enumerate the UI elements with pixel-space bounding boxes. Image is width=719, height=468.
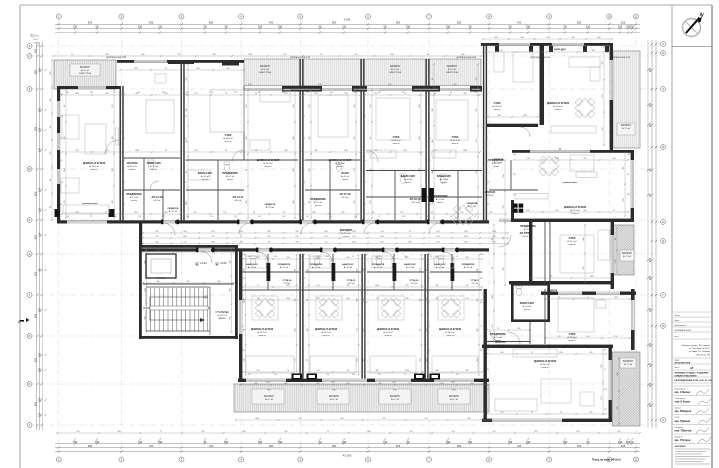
svg-text:515: 515 [492, 431, 495, 433]
svg-text:205: 205 [648, 382, 652, 387]
svg-text:БАЛКОН: БАЛКОН [447, 65, 457, 68]
svg-text:A: 3.9 м²: A: 3.9 м² [406, 266, 414, 269]
title block rows top [673, 312, 711, 339]
grid axis 7 [428, 20, 430, 452]
svg-text:+5.60: +5.60 [220, 261, 227, 265]
wall: party wall x119 (double) [120, 86, 124, 224]
svg-text:450: 450 [402, 216, 405, 218]
svg-text:120: 120 [604, 409, 607, 411]
svg-text:325: 325 [295, 242, 298, 244]
svg-text:250: 250 [406, 25, 411, 29]
window corridor south gap1 [258, 248, 269, 251]
partition: apt45 bath v x458 [457, 171, 459, 221]
room label: apt3 bedroom [391, 136, 401, 145]
svg-text:385: 385 [590, 276, 593, 278]
svg-text:15: 15 [122, 116, 124, 118]
svg-text:250: 250 [526, 25, 531, 29]
svg-text:120: 120 [223, 212, 226, 214]
svg-text:Жилищна сграда с ПГ и гаражи,: Жилищна сграда с ПГ и гаражи, [682, 345, 711, 347]
furniture: bed apt5 [436, 100, 468, 140]
svg-text:450: 450 [517, 328, 520, 330]
dim chain: apt row y150 [61, 151, 481, 153]
frame top line [20, 4, 712, 6]
wall: right wing bottom wall [510, 219, 634, 222]
svg-text:515: 515 [324, 242, 327, 244]
svg-text:325: 325 [604, 389, 607, 391]
svg-text:120: 120 [427, 326, 430, 328]
svg-text:450: 450 [284, 150, 287, 152]
svg-text:205: 205 [256, 257, 259, 259]
svg-text:120: 120 [183, 242, 186, 244]
svg-text:205: 205 [66, 216, 69, 218]
stair mid landing rail [150, 306, 208, 310]
svg-text:A: 16.1 м²: A: 16.1 м² [391, 139, 401, 142]
svg-text:325: 325 [508, 440, 513, 444]
north arrow box [672, 46, 712, 48]
furniture: dresser apt2 [250, 140, 270, 150]
window corridor north gap5 [429, 220, 440, 223]
furniture: low sofa1 [246, 356, 294, 373]
dim chain: x585 bb [584, 224, 586, 283]
svg-text:90: 90 [450, 216, 452, 218]
svg-text:ПРЕДВЕРИЕ: ПРЕДВЕРИЕ [490, 333, 506, 336]
svg-text:120: 120 [526, 158, 529, 160]
window balc row w3 [367, 88, 412, 91]
svg-text:325: 325 [426, 328, 428, 331]
svg-text:БАЛКОН: БАЛКОН [449, 395, 459, 398]
svg-text:265: 265 [457, 21, 462, 25]
svg-text:75: 75 [497, 328, 499, 330]
svg-text:БАНЯ И WC: БАНЯ И WC [437, 175, 452, 178]
svg-text:325: 325 [400, 212, 403, 214]
svg-text:450: 450 [346, 298, 349, 300]
room label: low4 bath [434, 263, 446, 269]
svg-text:385: 385 [426, 216, 429, 218]
dim chain: stair x231 [231, 247, 233, 333]
svg-text:ламинат: ламинат [568, 244, 576, 246]
svg-text:385: 385 [312, 212, 315, 214]
window corridor south gap1 [258, 248, 269, 251]
svg-text:260: 260 [405, 298, 408, 300]
svg-text:1250: 1250 [248, 54, 252, 56]
furniture: rw kitchen [515, 194, 548, 200]
room label: apt3 number [340, 192, 351, 199]
svg-text:205: 205 [293, 168, 295, 171]
svg-text:СТУД.17: СТУД.17 [471, 280, 480, 282]
room label: apt1 living [83, 162, 105, 171]
svg-text:СТАЯ: СТАЯ [569, 333, 576, 336]
room label: apt2 closet [265, 203, 276, 209]
svg-text:1250: 1250 [463, 150, 467, 152]
svg-text:A: 6.7 м²: A: 6.7 м² [391, 398, 399, 401]
top dimension numbers [73, 18, 635, 29]
svg-text:A: 5.5 м²: A: 5.5 м² [314, 201, 322, 204]
svg-text:205: 205 [346, 285, 349, 287]
svg-text:385: 385 [326, 256, 329, 258]
wall: stair bottom wall [139, 336, 238, 339]
room label: apt4 bedroom [450, 136, 460, 145]
svg-text:625: 625 [88, 21, 93, 25]
wall: tr pier c [549, 46, 553, 52]
furniture: low tbl2 [316, 296, 342, 320]
svg-text:260: 260 [211, 242, 214, 244]
svg-text:A: 27.4 м²: A: 27.4 м² [341, 232, 351, 235]
dim chain: x356 inner [355, 89, 357, 219]
svg-text:РАЗПРЕДЕЛЕНИЕ КОТА +5.40: РАЗПРЕДЕЛЕНИЕ КОТА +5.40 [675, 379, 705, 382]
svg-text:СТУД.15: СТУД.15 [347, 280, 356, 282]
corridor door jambs [161, 220, 458, 253]
svg-text:75: 75 [409, 236, 411, 238]
svg-text:205: 205 [60, 94, 63, 96]
svg-text:БАЛКОН: БАЛКОН [329, 395, 339, 398]
svg-text:ПРЕДВЕРИЕ: ПРЕДВЕРИЕ [126, 193, 142, 196]
svg-text:Б: Б [29, 382, 31, 386]
elevator cab [146, 254, 176, 278]
grid axis 6 [367, 20, 369, 452]
wall: balcony divider x360 (double) [360, 59, 364, 86]
svg-text:120: 120 [354, 168, 356, 171]
svg-text:АП.13.16: АП.13.16 [152, 195, 163, 199]
wall: top-right block right wall [610, 43, 613, 152]
svg-text:325: 325 [316, 298, 319, 300]
room label: apt3 bath [341, 172, 349, 181]
svg-text:325: 325 [378, 92, 381, 94]
room label: brw entry [490, 333, 506, 342]
svg-text:1250: 1250 [497, 115, 501, 117]
room label: apt1 bath [147, 162, 162, 171]
svg-text:75: 75 [531, 352, 533, 354]
door apt1 living [105, 140, 119, 154]
furniture: bed apt2 [210, 90, 244, 132]
balcony labels text [79, 65, 633, 401]
svg-text:120: 120 [383, 440, 388, 444]
partition: apt4 partition h y197 [366, 196, 430, 198]
svg-text:385: 385 [164, 212, 167, 214]
svg-text:15: 15 [378, 216, 380, 218]
stair inner guard wall [152, 290, 298, 292]
dim chain: x310 inner [310, 89, 312, 219]
svg-text:120: 120 [326, 374, 329, 376]
wall: top wall apt1-2 span [117, 60, 244, 63]
dim chain: rw y212 [513, 211, 629, 213]
room label: rw living [564, 206, 586, 215]
svg-text:625: 625 [34, 357, 38, 362]
svg-text:теракот: теракот [524, 309, 531, 311]
svg-text:205: 205 [274, 374, 277, 376]
svg-text:385: 385 [354, 104, 356, 107]
svg-text:120: 120 [357, 328, 359, 331]
svg-text:A: 24.0 м²: A: 24.0 м² [335, 162, 345, 165]
svg-text:A: 16.9 м²: A: 16.9 м² [445, 331, 455, 334]
svg-text:СТУД.16: СТУД.16 [410, 280, 419, 282]
svg-text:1250: 1250 [75, 93, 79, 95]
svg-text:ГАРДЕРОБ: ГАРДЕРОБ [265, 203, 276, 206]
svg-text:90: 90 [490, 212, 492, 214]
svg-text:260: 260 [196, 68, 199, 70]
top dimension chain lines [55, 25, 640, 33]
svg-text:450: 450 [60, 116, 63, 118]
svg-text:1250: 1250 [255, 418, 259, 420]
svg-text:90: 90 [431, 212, 433, 214]
window corridor north gap2 [239, 220, 250, 223]
partition: apt3 partition h y190 [305, 189, 360, 191]
svg-text:A: 5.0 м²: A: 5.0 м² [436, 198, 444, 201]
svg-text:450: 450 [477, 328, 479, 331]
window lower bottom w4 [434, 379, 474, 382]
svg-text:120: 120 [354, 92, 357, 94]
window br wing bottom w [492, 419, 562, 422]
svg-text:265: 265 [34, 126, 38, 131]
dim chain: below balcony y420 [235, 419, 491, 421]
partition: apt3 partition h y160 [305, 159, 360, 161]
svg-text:A: 17.2 м²: A: 17.2 м² [257, 331, 267, 334]
svg-text:515: 515 [451, 431, 454, 433]
svg-text:СИБИТ ПЛОЩ: СИБИТ ПЛОЩ [389, 72, 402, 74]
svg-text:теракот: теракот [437, 202, 444, 204]
svg-text:325: 325 [380, 242, 383, 244]
dim chain: lower x421 [421, 254, 423, 376]
furniture: tr kitchen [551, 126, 596, 133]
furniture: bb2 bed [558, 298, 594, 332]
svg-text:260: 260 [378, 374, 381, 376]
svg-text:260: 260 [302, 160, 305, 162]
svg-text:205: 205 [309, 104, 311, 107]
svg-text:450: 450 [105, 93, 108, 95]
apt1 french door jambs [55, 209, 115, 217]
svg-text:385: 385 [302, 204, 305, 206]
window corridor south gap3 [384, 248, 395, 251]
north arrow needle [686, 18, 700, 34]
furniture: dining rw [533, 150, 564, 181]
svg-text:СТАЯ: СТАЯ [225, 134, 232, 137]
partition: tr entry partition h [489, 189, 538, 191]
svg-text:205: 205 [38, 107, 42, 112]
svg-text:385: 385 [589, 352, 592, 354]
svg-text:325: 325 [184, 116, 187, 118]
grid axis G horizontal [30, 168, 660, 170]
stair landing line [143, 307, 210, 309]
svg-text:75: 75 [240, 236, 242, 238]
dim chain: lower x428 b [427, 254, 429, 376]
svg-text:A: 2.1 м²: A: 2.1 м² [548, 292, 556, 295]
svg-text:205: 205 [183, 236, 186, 238]
svg-text:385: 385 [432, 108, 434, 111]
svg-text:325: 325 [267, 236, 270, 238]
partition: lower entry h y272 [242, 271, 299, 273]
dim chain: corridor c1 [142, 232, 509, 234]
svg-text:385: 385 [230, 316, 232, 319]
window corridor north gap1 [163, 220, 175, 223]
svg-text:ПРЕДВЕРИЕ: ПРЕДВЕРИЕ [278, 264, 291, 266]
room label: brw living [534, 360, 556, 369]
wall: lower band bottom wall [238, 379, 489, 382]
svg-text:450: 450 [520, 37, 523, 39]
svg-text:Е: Е [29, 218, 31, 222]
svg-text:СТАЯ: СТАЯ [452, 136, 459, 139]
svg-text:A: 3.9 м²: A: 3.9 м² [344, 266, 352, 269]
furniture: bed apt1 [146, 100, 174, 133]
svg-text:БАНЯ: БАНЯ [341, 172, 348, 175]
door apt4 entry [364, 223, 375, 234]
north arrow compass [683, 19, 701, 37]
svg-text:515: 515 [75, 150, 78, 152]
svg-text:15: 15 [300, 256, 302, 258]
window apt1 left w3 [57, 169, 60, 184]
svg-text:ламинат: ламинат [128, 169, 136, 171]
svg-text:250: 250 [446, 440, 451, 444]
svg-text:325: 325 [346, 383, 349, 385]
bottom dimension numbers [73, 440, 634, 458]
svg-text:385: 385 [162, 92, 165, 94]
svg-text:385: 385 [134, 68, 137, 70]
svg-text:75: 75 [613, 210, 615, 212]
svg-text:120: 120 [256, 370, 259, 372]
svg-text:A: 3.9 м²: A: 3.9 м² [436, 266, 444, 269]
dim chain: lower x308 [308, 254, 310, 376]
svg-text:ДНЕВНА И КУХНЯ: ДНЕВНА И КУХНЯ [251, 328, 273, 331]
svg-text:450: 450 [586, 336, 589, 338]
wall: bath box right wing top [511, 283, 550, 286]
room label: low3 bath [372, 264, 385, 269]
svg-text:605: 605 [621, 444, 626, 448]
balcony hatch B3 right-upper [613, 51, 640, 148]
furniture: bed apt3 [318, 95, 348, 137]
svg-text:250: 250 [648, 257, 652, 262]
svg-text:325: 325 [357, 268, 359, 271]
wall: top wall T-pier [168, 60, 194, 64]
furniture: low sofa2 [310, 356, 356, 373]
svg-text:150: 150 [38, 352, 42, 357]
window corridor north gap4 [364, 220, 375, 223]
address paragraph [682, 345, 711, 356]
svg-text:A: 4.5 м²: A: 4.5 м² [150, 165, 158, 168]
room label: low2 living [315, 328, 337, 337]
dim chain: x505 corr [504, 159, 506, 286]
room label: corridor [340, 229, 353, 238]
furniture: bb bed [560, 235, 594, 273]
svg-text:260: 260 [465, 370, 468, 372]
svg-text:A: 27.5 м²: A: 27.5 м² [570, 209, 580, 212]
stair block corridor partition [143, 283, 234, 285]
svg-text:90: 90 [60, 160, 62, 162]
window tr block right w [610, 60, 613, 100]
svg-text:250: 250 [630, 25, 635, 29]
svg-text:120: 120 [283, 54, 286, 56]
svg-text:265: 265 [577, 444, 582, 448]
svg-text:СПАЛНЯ: СПАЛНЯ [127, 162, 138, 165]
room label: apt2 bath [198, 172, 213, 181]
svg-text:385: 385 [420, 298, 422, 301]
svg-text:A: 7.5 м²: A: 7.5 м² [622, 127, 630, 130]
svg-text:450: 450 [302, 182, 305, 184]
stair upper flight treads [146, 288, 208, 306]
svg-text:250: 250 [468, 440, 473, 444]
svg-text:1250: 1250 [464, 236, 468, 238]
svg-text:ПРЕДВЕРИЕ: ПРЕДВЕРИЕ [432, 195, 448, 198]
svg-text:1250: 1250 [352, 242, 356, 244]
svg-text:теракот: теракот [343, 236, 350, 238]
svg-text:90: 90 [480, 302, 482, 304]
balcony hatch B5 right-lower [613, 352, 641, 426]
dim chain: lower x296 [296, 254, 298, 376]
wall: bath box right wing bottom [511, 319, 550, 322]
room label: low1 entry [278, 264, 291, 269]
wall: bedroom block right wall [611, 222, 614, 289]
svg-text:700: 700 [209, 444, 214, 448]
svg-text:385: 385 [186, 201, 188, 204]
svg-text:205: 205 [503, 174, 505, 177]
svg-text:580: 580 [577, 21, 582, 25]
fixture: wc apt5 [440, 177, 445, 184]
balcony hatch B4 right-middle [613, 225, 635, 275]
svg-text:450: 450 [419, 168, 421, 171]
svg-text:90: 90 [615, 238, 617, 240]
window apt1 top sill [78, 86, 106, 89]
furniture: rw rug [570, 155, 594, 171]
fixture: wc low2 [314, 259, 319, 266]
svg-text:АРХИТЕКТУРА: АРХИТЕКТУРА [675, 361, 691, 364]
furniture: tr bed2 [494, 52, 504, 72]
svg-text:15: 15 [114, 92, 116, 94]
room label: apt4 entry [432, 195, 448, 204]
svg-text:+7.34: +7.34 [33, 43, 39, 45]
misc small markers F.S [249, 84, 458, 384]
svg-text:250: 250 [38, 67, 42, 72]
fixture: wc rw [516, 289, 521, 296]
partition: brw bedroom v x545b [544, 289, 546, 344]
svg-text:120: 120 [38, 207, 42, 212]
svg-text:325: 325 [295, 231, 298, 233]
svg-text:205: 205 [503, 267, 505, 270]
bottom grid bubbles 1-11 [56, 457, 638, 462]
svg-text:450: 450 [617, 372, 619, 375]
svg-text:205: 205 [480, 350, 483, 352]
furniture: low tbl1 [252, 296, 278, 320]
svg-text:90: 90 [212, 236, 214, 238]
window corridor south gap4 [444, 248, 455, 251]
svg-text:385: 385 [480, 254, 483, 256]
svg-text:A: 30.2 м²: A: 30.2 м² [89, 165, 99, 168]
svg-text:385: 385 [156, 281, 159, 283]
svg-text:385: 385 [374, 150, 377, 152]
svg-text:450: 450 [380, 236, 383, 238]
room label: apt1 number [152, 195, 163, 202]
svg-text:205: 205 [254, 383, 257, 385]
svg-text:арх. В.Марков: арх. В.Марков [675, 410, 692, 413]
furniture: dining low3 [375, 292, 406, 323]
svg-text:385: 385 [302, 94, 305, 96]
wall: bedroom2 right wall [631, 289, 635, 350]
svg-text:515: 515 [409, 431, 412, 433]
svg-text:120: 120 [477, 298, 479, 301]
svg-text:385: 385 [50, 125, 52, 128]
frame left line [19, 5, 21, 468]
room label: apt5 bath [437, 175, 452, 184]
svg-text:385: 385 [420, 358, 422, 361]
svg-text:700: 700 [517, 21, 522, 25]
svg-text:205: 205 [306, 216, 309, 218]
room label: rw note [563, 182, 577, 184]
svg-text:450: 450 [230, 260, 232, 263]
svg-text:205: 205 [330, 92, 333, 94]
wall: lower party x424 (double) [424, 254, 428, 379]
svg-text:част:: част: [675, 336, 680, 338]
svg-text:75: 75 [428, 182, 430, 184]
svg-text:кухненски бокс: кухненски бокс [563, 182, 577, 184]
svg-text:385: 385 [122, 182, 125, 184]
svg-text:ДИЛАТАЦИОННА ФУГА: ДИЛАТАЦИОННА ФУГА [456, 56, 477, 59]
svg-text:11: 11 [635, 458, 638, 462]
